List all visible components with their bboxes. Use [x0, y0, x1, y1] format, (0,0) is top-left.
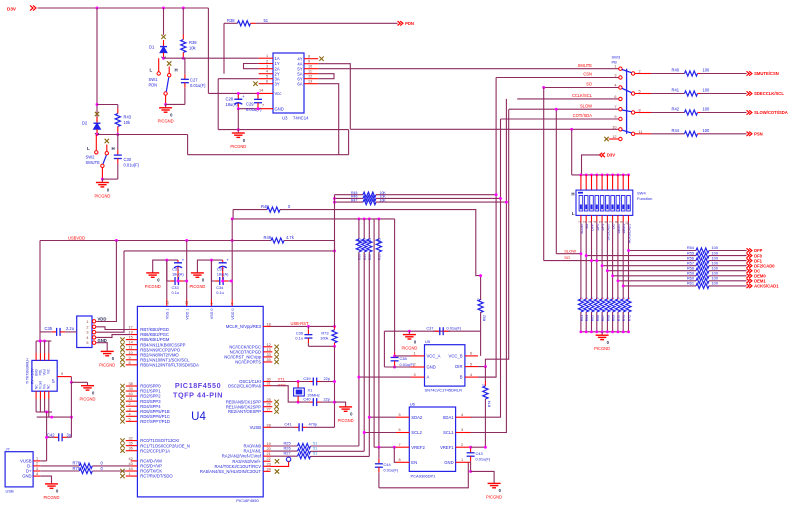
- resistor R27: [298, 454, 311, 459]
- junction R73 bottom: [333, 345, 336, 348]
- U4 RB port pins: [126, 326, 199, 368]
- wire USBVDD drop: [39, 241, 41, 332]
- svg-text:0.01u(F): 0.01u(F): [447, 326, 462, 331]
- capacitor C30: [114, 135, 122, 180]
- svg-text:D2: D2: [82, 121, 88, 126]
- junction SLOW drop: [555, 108, 558, 111]
- wire R25 to rail: [311, 445, 359, 447]
- wire rail R50 top: [358, 219, 360, 239]
- wire R38 left drop: [223, 23, 225, 73]
- no-connect X marks RB pins: [120, 337, 124, 367]
- ground PICGND regulator: [80, 382, 96, 401]
- svg-text:D3V: D3V: [607, 153, 615, 158]
- svg-text:6: 6: [399, 428, 401, 432]
- svg-text:18u(A): 18u(A): [172, 272, 184, 277]
- wire rail R51 down: [363, 252, 365, 451]
- svg-text:7: 7: [262, 104, 264, 108]
- svg-text:100: 100: [703, 128, 711, 133]
- svg-text:PICGND: PICGND: [401, 346, 417, 351]
- resistor R63 top: [478, 300, 483, 313]
- wire row R59: [613, 275, 696, 277]
- svg-text:10: 10: [308, 65, 312, 69]
- wire row R54: [629, 250, 696, 252]
- svg-text:PIC18F4550: PIC18F4550: [175, 381, 221, 390]
- junctions SW4 top bus: [579, 173, 630, 176]
- U4 top power pins VSS VDD: [165, 300, 235, 320]
- wire C28 bottom drop: [237, 109, 239, 130]
- svg-text:VREF2: VREF2: [411, 445, 425, 450]
- U4 NC pins: [224, 343, 272, 365]
- svg-text:SDA1: SDA1: [443, 415, 455, 420]
- junctions OSC2 row: [297, 401, 336, 404]
- connector J6 ICSP: [77, 316, 92, 348]
- svg-text:R78: R78: [73, 460, 81, 465]
- wire B to rail: [478, 376, 496, 378]
- resistor R56: [696, 258, 709, 263]
- wire R44 to port: [700, 133, 747, 135]
- svg-text:44: 44: [129, 467, 133, 471]
- svg-text:27: 27: [267, 408, 271, 412]
- svg-text:100k: 100k: [320, 336, 328, 341]
- wire R45 row left: [335, 194, 364, 196]
- svg-text:PCA9306DP1: PCA9306DP1: [411, 474, 437, 479]
- wire ICSP pin4 to U4 pin19: [96, 335, 131, 338]
- svg-text:22: 22: [267, 457, 271, 461]
- wire R56 to port: [709, 260, 747, 262]
- resistor R25: [298, 443, 311, 448]
- svg-text:C44: C44: [384, 462, 392, 467]
- junctions SW4 bottom bus: [579, 330, 630, 333]
- U4 RC4-RC7 pins: [126, 457, 174, 479]
- ground PICGND crystal: [338, 404, 354, 423]
- svg-text:15: 15: [129, 336, 133, 340]
- wire GND U5 row: [384, 366, 411, 368]
- no-connect U3 4Y: [319, 57, 323, 61]
- svg-text:3: 3: [414, 373, 416, 377]
- svg-text:0: 0: [481, 384, 485, 386]
- svg-text:0: 0: [601, 297, 605, 299]
- svg-text:40: 40: [129, 392, 133, 396]
- wire R59 to port: [709, 275, 747, 277]
- wire R55 to port: [709, 255, 747, 257]
- svg-text:39: 39: [129, 387, 133, 391]
- svg-text:PICGND: PICGND: [486, 494, 502, 499]
- resistor R52: [367, 239, 372, 252]
- svg-text:13: 13: [267, 348, 271, 352]
- resistor R45: [363, 192, 377, 197]
- svg-text:4: 4: [36, 472, 38, 476]
- junctions VREF2 row: [377, 446, 395, 449]
- svg-text:25: 25: [267, 398, 271, 402]
- svg-text:5: 5: [470, 362, 472, 366]
- junctions C43: [469, 446, 472, 473]
- svg-text:0.01u(F): 0.01u(F): [384, 468, 399, 473]
- svg-text:R42: R42: [672, 107, 680, 112]
- wire C39 to rail: [321, 381, 335, 383]
- resistor R48: [267, 207, 280, 212]
- junctions regulator top: [39, 340, 46, 343]
- svg-text:32: 32: [129, 437, 133, 441]
- wire row R58: [607, 270, 696, 272]
- wire VSS1 column: [166, 260, 168, 299]
- svg-text:RD7/SPP7/P1D: RD7/SPP7/P1D: [140, 419, 170, 424]
- junction SW2 bottom: [101, 178, 104, 181]
- wire U3 1Y to 2A: [244, 64, 259, 69]
- svg-text:SLOW/COTI/SDA: SLOW/COTI/SDA: [754, 110, 788, 115]
- junction tap R54: [627, 249, 630, 252]
- port DF1: [747, 258, 763, 263]
- wire to R41: [651, 93, 685, 95]
- wire row R60: [618, 280, 696, 282]
- svg-text:100: 100: [703, 88, 711, 93]
- svg-text:51: 51: [264, 18, 269, 23]
- resistor R58: [696, 268, 709, 273]
- junction tap R56: [595, 259, 598, 262]
- svg-text:PSN: PSN: [754, 132, 763, 137]
- svg-text:200: 200: [357, 238, 361, 244]
- svg-text:18u(A): 18u(A): [226, 102, 239, 107]
- svg-text:RC7/RX/DT/SDO: RC7/RX/DT/SDO: [140, 474, 173, 479]
- wire R38 row left: [224, 22, 238, 24]
- port SDECCLK/SCL: [747, 91, 785, 96]
- wire D- to U4: [92, 465, 130, 467]
- wire U3 6A down: [318, 84, 339, 155]
- port D3V at SW4: [600, 153, 616, 158]
- svg-text:14: 14: [259, 88, 263, 92]
- svg-text:SO: SO: [586, 82, 592, 87]
- svg-text:Vcc: Vcc: [275, 91, 282, 96]
- wire D+ to U4: [92, 470, 130, 472]
- svg-text:XT1: XT1: [278, 377, 286, 382]
- svg-text:C27: C27: [190, 78, 198, 83]
- svg-text:R50: R50: [358, 254, 362, 260]
- svg-text:C29: C29: [246, 102, 254, 107]
- U4 OSC2 pin 31: [228, 382, 271, 389]
- svg-text:19: 19: [267, 442, 271, 446]
- wire DIR to rail: [478, 366, 485, 368]
- junction D2 branch: [96, 103, 99, 106]
- svg-text:2: 2: [414, 363, 416, 367]
- svg-text:VUSB: VUSB: [250, 425, 262, 430]
- svg-text:0.01u(F): 0.01u(F): [246, 107, 262, 112]
- wire SCL2 row: [364, 432, 396, 434]
- wire crystal row to ground: [335, 402, 346, 403]
- svg-text:0: 0: [606, 297, 610, 299]
- wire RA2 row: [271, 455, 298, 457]
- wire bypass group C31 top: [153, 260, 178, 269]
- svg-text:5: 5: [266, 75, 268, 79]
- svg-text:C38: C38: [400, 356, 407, 361]
- capacitor C44: [375, 447, 383, 488]
- wire R58 to port: [709, 270, 747, 272]
- svg-text:100: 100: [703, 107, 711, 112]
- ground PICGND U3: [230, 130, 246, 149]
- svg-text:R38: R38: [227, 18, 235, 23]
- no-connect X marks RC0-RC2: [120, 438, 124, 453]
- svg-text:NC/ICPORTS: NC/ICPORTS: [235, 360, 261, 365]
- svg-text:26: 26: [267, 403, 271, 407]
- svg-text:PICGND: PICGND: [189, 284, 205, 289]
- svg-text:R48: R48: [261, 204, 269, 209]
- wire D3V drop to U3 Vcc: [207, 8, 209, 93]
- svg-text:6: 6: [266, 80, 268, 84]
- wire R27 to rail: [311, 455, 370, 457]
- svg-text:200: 200: [368, 238, 372, 244]
- svg-text:0: 0: [617, 297, 621, 299]
- svg-text:TQFP 44-PIN: TQFP 44-PIN: [173, 391, 223, 400]
- wire R74 down to VREF1: [484, 399, 486, 447]
- junction tap R59: [611, 274, 614, 277]
- wire D- row: [40, 465, 79, 467]
- svg-text:PICGND: PICGND: [230, 144, 246, 149]
- junction SCL2 rail: [363, 431, 366, 434]
- wire rail R52 top: [368, 219, 370, 239]
- svg-text:8: 8: [129, 361, 131, 365]
- svg-text:GND: GND: [444, 460, 453, 465]
- svg-text:D3V: D3V: [7, 7, 17, 12]
- wire C33 col: [166, 260, 168, 281]
- wire R48 row to R62 top: [280, 210, 481, 300]
- svg-text:EP: EP: [52, 379, 56, 383]
- wire R48 row left: [233, 209, 267, 211]
- svg-text:H: H: [175, 68, 178, 73]
- svg-text:0: 0: [611, 297, 615, 299]
- svg-text:6A: 6A: [297, 81, 302, 86]
- svg-text:R74: R74: [487, 401, 491, 407]
- svg-text:0.01u(F): 0.01u(F): [190, 83, 206, 88]
- wire R40 to port: [700, 73, 747, 75]
- resistor R74: [483, 367, 488, 399]
- SW4 top pin stubs and numbers: [580, 175, 632, 193]
- svg-text:2: 2: [86, 325, 88, 329]
- wire SW4 bottom bus: [581, 331, 629, 333]
- resistor R42: [685, 110, 701, 115]
- wire pin10 rail down: [571, 129, 573, 175]
- wire VCC_A to C38: [395, 355, 411, 357]
- wire CCLK/SCL row: [517, 98, 618, 100]
- svg-text:R67: R67: [601, 315, 605, 321]
- svg-text:10k: 10k: [124, 120, 132, 125]
- junctions OSC1 row: [297, 380, 336, 383]
- port SMUTE/CSN: [747, 71, 779, 76]
- port D3V input chevron: [30, 5, 36, 10]
- wire SW2 row: [97, 134, 188, 136]
- capacitor C41: [295, 423, 307, 431]
- capacitor C38: [391, 351, 399, 367]
- wire SW2 loop drop: [187, 135, 189, 155]
- svg-text:2: 2: [639, 70, 641, 74]
- ground PICGND SW2: [94, 179, 110, 198]
- svg-text:SMUTE/CSN: SMUTE/CSN: [754, 71, 779, 76]
- wire VDD to ICSP pin1: [96, 241, 116, 322]
- svg-text:U5: U5: [425, 339, 431, 344]
- wire MCLR to rail: [271, 325, 335, 327]
- level shifter U5: [425, 345, 465, 386]
- port DEM0: [747, 274, 767, 279]
- junctions 200 bus: [231, 217, 381, 220]
- svg-text:PICGND: PICGND: [158, 119, 174, 124]
- svg-text:0.1u: 0.1u: [216, 290, 224, 295]
- svg-text:R69: R69: [612, 315, 616, 321]
- svg-text:SO: SO: [564, 255, 570, 260]
- wire RA0 row: [271, 445, 298, 447]
- svg-text:R65: R65: [590, 315, 594, 321]
- svg-text:SMUTE: SMUTE: [578, 63, 593, 68]
- ground PICGND ICSP: [99, 348, 115, 367]
- wire RA4 bubble: [271, 462, 289, 467]
- wire row R61: [623, 285, 696, 287]
- port PDN: [398, 21, 414, 26]
- stub SW3 to R44: [635, 133, 651, 135]
- wire C44 bottom to U6 GND: [379, 462, 468, 488]
- svg-text:R47: R47: [351, 198, 357, 202]
- wire 4A row to SW3 pin10: [350, 128, 618, 130]
- svg-text:PICGND: PICGND: [94, 193, 110, 198]
- wire D3V top rail: [38, 7, 209, 9]
- svg-text:6: 6: [470, 352, 472, 356]
- svg-text:SCL2: SCL2: [411, 430, 422, 435]
- svg-text:VCC_B: VCC_B: [449, 354, 463, 359]
- U3 right pins 4Y-6A: [297, 55, 318, 87]
- svg-text:100: 100: [703, 68, 711, 73]
- wire SLOW row to SW4: [556, 253, 581, 255]
- wire R42 to port: [700, 112, 747, 114]
- capacitor C36: [304, 326, 312, 346]
- svg-text:SW1: SW1: [149, 77, 159, 82]
- svg-text:C39: C39: [303, 376, 310, 381]
- svg-text:9: 9: [308, 60, 310, 64]
- wire bypass group C32 top: [197, 260, 222, 269]
- svg-text:0: 0: [580, 297, 584, 299]
- svg-text:SW4: SW4: [637, 191, 646, 196]
- junctions bypass C33: [177, 280, 189, 283]
- svg-text:R44: R44: [672, 128, 680, 133]
- wire R26 to rail: [311, 450, 365, 452]
- svg-text:31: 31: [267, 382, 271, 386]
- svg-text:SN74LVC1T45DRLR: SN74LVC1T45DRLR: [425, 388, 463, 393]
- svg-text:33: 33: [267, 353, 271, 357]
- svg-text:34: 34: [267, 358, 271, 362]
- svg-text:20: 20: [267, 447, 271, 451]
- resistor R60: [696, 278, 709, 283]
- wire VDD1 column: [186, 241, 188, 300]
- svg-text:+: +: [182, 257, 185, 262]
- junction SDA2 rail: [368, 416, 371, 419]
- capacitor C42: [47, 433, 72, 441]
- svg-text:0: 0: [585, 297, 589, 299]
- svg-text:C35: C35: [45, 326, 53, 331]
- svg-text:0.1u: 0.1u: [295, 336, 303, 341]
- wire SW4 top bus: [572, 174, 629, 176]
- no-connect U3 3Y: [253, 82, 257, 86]
- wire OSC2 to C40 row: [271, 386, 310, 402]
- svg-text:PIC18F4550: PIC18F4550: [236, 498, 259, 503]
- resistor R39: [181, 8, 186, 58]
- wire loop bottom row: [188, 154, 349, 156]
- svg-text:0: 0: [477, 298, 481, 300]
- resistor R26: [298, 449, 311, 454]
- SW4 bottom pin stubs numbers and net names: [577, 215, 631, 243]
- wires regulator top verticals: [36, 341, 49, 353]
- junction MCLR rail x row: [333, 249, 336, 252]
- wire R46 row left: [335, 197, 364, 199]
- switch SW4 DIP body: [576, 190, 633, 215]
- svg-text:OSC2/CLKO/RA6: OSC2/CLKO/RA6: [228, 383, 262, 388]
- wire C34 col: [211, 260, 213, 281]
- wire SLOW drop to SW4 row: [555, 109, 557, 254]
- svg-text:R61: R61: [687, 281, 694, 286]
- svg-text:VDD: VDD: [98, 316, 107, 321]
- svg-text:43: 43: [129, 462, 133, 466]
- wire C40 to rail: [321, 401, 335, 403]
- resistor R61: [696, 283, 709, 288]
- resistor R50: [356, 239, 361, 252]
- svg-text:28: 28: [267, 423, 271, 427]
- capacitor C35: [40, 328, 77, 336]
- wire VREF2 row: [374, 446, 396, 448]
- connector J6 pins: [86, 320, 95, 346]
- stub SW3 to R42: [635, 112, 651, 114]
- SW4 DIP elements: [579, 196, 630, 212]
- wire regulator top rail: [36, 340, 51, 342]
- microcontroller U4 PIC18F4550: [137, 306, 263, 497]
- wire C36 R73 bottom: [308, 345, 334, 347]
- svg-text:1: 1: [614, 65, 616, 69]
- junctions VDD rail: [115, 239, 234, 242]
- junction tap R60: [616, 279, 619, 282]
- svg-text:PICGND: PICGND: [145, 284, 161, 289]
- resistor R40: [685, 71, 701, 76]
- resistor R79: [79, 468, 92, 473]
- svg-text:41: 41: [129, 397, 133, 401]
- wire U3 GND row: [238, 108, 255, 110]
- svg-text:3u: 3u: [67, 432, 72, 437]
- svg-text:4: 4: [129, 412, 131, 416]
- wire drop to D2 branch: [96, 8, 98, 135]
- svg-text:L: L: [87, 146, 90, 151]
- svg-text:42: 42: [129, 457, 133, 461]
- wire R54 to port: [709, 250, 747, 252]
- wires regulator bottom verticals: [36, 399, 49, 417]
- svg-text:200: 200: [377, 238, 381, 244]
- svg-text:R39: R39: [189, 40, 197, 45]
- wire VDD0 top: [231, 219, 233, 241]
- svg-text:1: 1: [461, 458, 463, 462]
- svg-text:NC: NC: [47, 368, 51, 373]
- junction R74 VREF1: [484, 446, 487, 449]
- wire R45 row right: [377, 194, 497, 196]
- wire to R44: [651, 133, 685, 135]
- wire C41 to rail: [307, 426, 335, 428]
- wire MCLR rail upper: [334, 195, 336, 327]
- svg-text:D1: D1: [149, 45, 155, 50]
- svg-text:C43: C43: [476, 451, 483, 456]
- junction DIR rail: [484, 365, 487, 368]
- svg-text:R43: R43: [124, 115, 132, 120]
- wire pin9 down: [70, 377, 72, 383]
- wire row R56: [544, 260, 696, 262]
- wire ICSP pin3 up: [96, 251, 124, 332]
- ground PICGND J7: [44, 481, 60, 500]
- svg-text:3: 3: [86, 331, 88, 335]
- junction C31 col: [165, 259, 168, 262]
- svg-text:NC: NC: [47, 384, 51, 389]
- capacitor C28: [234, 93, 245, 108]
- wire to R40: [651, 73, 685, 75]
- U4 RA pins: [200, 442, 271, 474]
- wire R47 row right: [377, 201, 507, 203]
- stub SW3 pin12: [609, 138, 619, 140]
